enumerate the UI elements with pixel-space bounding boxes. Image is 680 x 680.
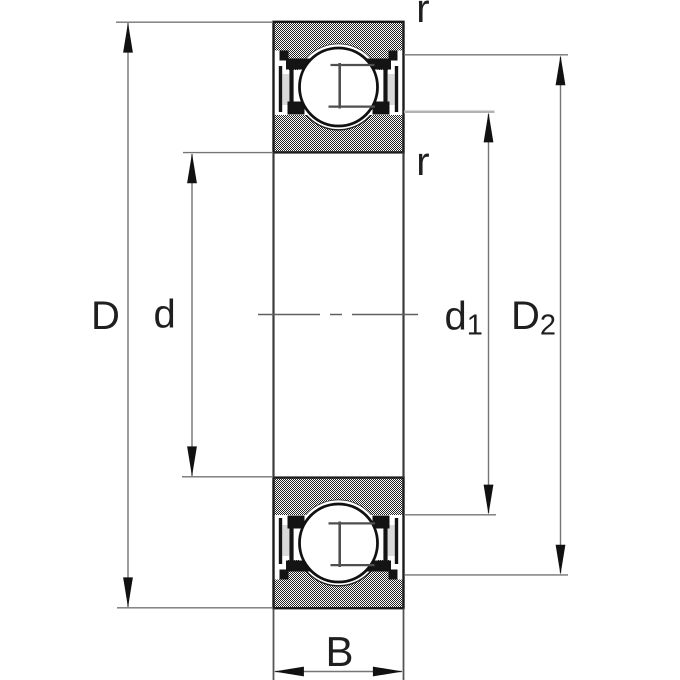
shield anchor square left (bottom) — [280, 570, 289, 580]
shield left plate (top) — [289, 63, 293, 112]
inner ring shoulder foot left (bottom) — [288, 516, 305, 529]
dimension d top extension line — [183, 152, 273, 154]
right face line (middle) — [402, 153, 404, 478]
svg-text:B: B — [326, 628, 354, 675]
dimension D2 line — [560, 57, 562, 573]
shield left plate (bottom) — [289, 518, 293, 567]
left face line (middle) — [272, 153, 274, 478]
dimension d line — [191, 154, 193, 476]
outer ring shoulder left (top) — [286, 59, 312, 70]
outer ring hatch (bottom section) — [274, 500, 403, 608]
shield anchor square left (top) — [280, 51, 289, 61]
dimension D2 top arrow — [556, 55, 566, 85]
cage rivet (bottom section) — [338, 522, 341, 568]
dimension D line — [127, 23, 129, 607]
dimension d1 top arrow — [484, 112, 494, 142]
dimension d1 bottom arrow — [484, 485, 494, 515]
dimension d1 top extension line — [404, 111, 495, 114]
outer ring shoulder right (top) — [365, 59, 391, 70]
dimension D2 bottom arrow — [556, 545, 566, 575]
inner ring shoulder foot right (bottom) — [373, 516, 390, 529]
inner ring hatch (top section) — [274, 44, 403, 152]
dimension D2 top extension line — [404, 54, 568, 56]
dimension d1 bottom extension line — [404, 514, 496, 516]
dimension B line — [275, 671, 402, 673]
axis center line — [258, 314, 418, 316]
dimension B right arrow — [373, 667, 403, 677]
svg-text:r: r — [416, 0, 429, 31]
dimension d1 line — [488, 114, 490, 513]
shield anchor square right (top) — [389, 51, 398, 61]
shield right outer lip (bottom) — [395, 518, 398, 564]
bearing outline (bottom section) — [274, 478, 404, 609]
dimension D top arrow — [123, 23, 133, 53]
inner ring hatch (bottom section) — [274, 478, 403, 586]
cage rivet (top section) — [338, 63, 341, 109]
outer ring shoulder left (bottom) — [286, 561, 312, 572]
shield right plate (bottom) — [383, 518, 387, 567]
cage bottom bar (bottom section) — [331, 564, 375, 566]
shield left outer lip (top) — [279, 66, 282, 112]
dimension D top extension line — [116, 21, 273, 23]
shield left gap shading (top) — [282, 74, 289, 105]
cage top bar (bottom section) — [329, 522, 376, 524]
bearing outline (top section) — [274, 22, 404, 153]
dimension d bottom arrow — [187, 446, 197, 476]
dimension D2 bottom extension line — [405, 574, 568, 576]
shield anchor square right (bottom) — [389, 570, 398, 580]
shield right outer lip (top) — [395, 66, 398, 112]
dimension B left arrow — [274, 667, 304, 677]
shield left gap shading (bottom) — [282, 525, 289, 556]
dimension d top arrow — [187, 153, 197, 183]
right face line (below bearing) — [403, 609, 405, 680]
cage bottom bar (top section) — [329, 105, 376, 107]
shield left outer lip (bottom) — [279, 518, 282, 564]
shield right gap shading (bottom) — [388, 525, 395, 556]
ball (top) — [300, 48, 378, 126]
inner ring shoulder foot right (top) — [373, 102, 390, 115]
shield right plate (top) — [383, 63, 387, 112]
ball (bottom) — [300, 504, 378, 582]
inner ring shoulder foot left (top) — [288, 102, 305, 115]
dimension d bottom extension line — [182, 476, 273, 478]
svg-text:D: D — [91, 294, 120, 338]
shield right gap shading (top) — [388, 74, 395, 105]
dimension D bottom arrow — [123, 577, 133, 607]
outer ring shoulder right (bottom) — [365, 561, 391, 572]
cage top bar (top section) — [331, 64, 375, 66]
outer ring hatch (top section) — [274, 22, 403, 130]
left face line (below bearing) — [273, 609, 275, 680]
svg-text:r: r — [416, 140, 429, 184]
svg-text:d: d — [154, 293, 176, 337]
dimension D bottom extension line — [117, 607, 273, 609]
